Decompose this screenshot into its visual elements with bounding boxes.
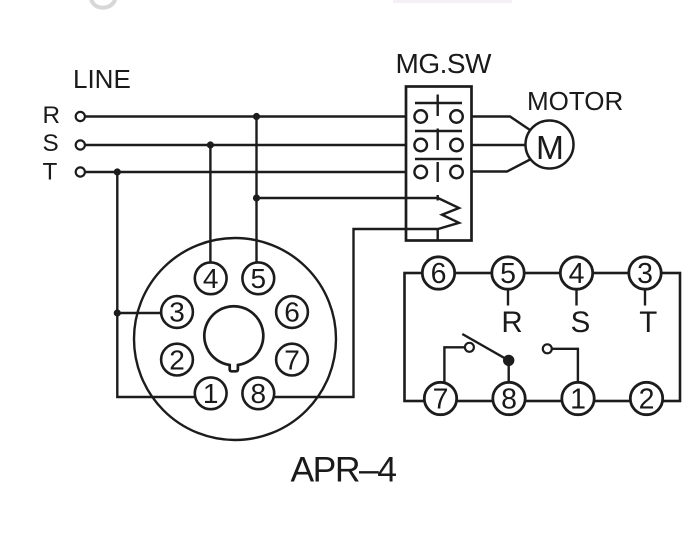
- svg-text:1: 1: [203, 378, 219, 409]
- junction T line: [114, 168, 121, 175]
- junction socket left: [114, 309, 121, 316]
- switch blade: [462, 334, 508, 360]
- contact pole 1 bar: [415, 102, 462, 104]
- svg-text:6: 6: [431, 258, 447, 290]
- pin 8: [242, 377, 274, 409]
- contact pole 2 bar: [415, 130, 462, 132]
- terminal 8: [493, 382, 525, 415]
- wire S vertical to pin 4: [209, 145, 211, 280]
- pin 7: [276, 344, 308, 376]
- linkage dashes: [437, 95, 439, 241]
- svg-text:S: S: [43, 130, 59, 157]
- svg-text:S: S: [571, 306, 591, 339]
- svg-text:T: T: [639, 306, 657, 339]
- contact pole 1 circles: [414, 110, 427, 123]
- svg-text:7: 7: [284, 344, 300, 375]
- terminal 2: [630, 382, 662, 415]
- terminal R: [76, 112, 85, 121]
- terminal 3: [629, 257, 661, 290]
- svg-text:LINE: LINE: [73, 64, 131, 94]
- wire box to motor top: [472, 117, 534, 133]
- terminal 1: [562, 382, 594, 415]
- terminal S: [76, 140, 85, 149]
- junction R line: [253, 113, 260, 120]
- contact pole 3 circles: [414, 166, 427, 179]
- relay base plate: [405, 273, 681, 401]
- terminal 5: [492, 257, 524, 290]
- svg-text:3: 3: [169, 297, 185, 328]
- svg-text:8: 8: [251, 378, 267, 409]
- pin 1: [195, 377, 227, 409]
- wire pivot to terminal 8: [508, 360, 510, 392]
- svg-text:6: 6: [284, 297, 300, 328]
- terminal 7: [424, 382, 456, 415]
- socket center hole with keyway: [204, 306, 263, 371]
- tick under 3: [644, 289, 646, 306]
- tick under 4: [575, 289, 577, 306]
- svg-text:4: 4: [569, 258, 585, 290]
- svg-text:5: 5: [251, 263, 267, 294]
- wire T vertical to socket: [117, 172, 211, 397]
- socket outline circle: [134, 238, 336, 440]
- svg-text:8: 8: [501, 383, 517, 415]
- motor circle M: [526, 121, 574, 169]
- terminal T: [76, 167, 85, 176]
- svg-text:7: 7: [433, 383, 449, 415]
- wire terminal 7 to contact: [444, 347, 466, 392]
- wire box to motor middle: [472, 144, 550, 146]
- wire coil top: [257, 197, 439, 199]
- svg-text:5: 5: [500, 258, 516, 290]
- contact pole 2 circles: [414, 139, 427, 152]
- junction S line: [207, 141, 214, 148]
- svg-text:APR–4: APR–4: [291, 450, 397, 490]
- wire S: [82, 144, 406, 146]
- wire R: [82, 115, 406, 117]
- svg-text:1: 1: [570, 383, 586, 415]
- terminal 6: [422, 257, 454, 290]
- svg-text:MG.SW: MG.SW: [396, 48, 493, 79]
- switch contact (1 side): [543, 344, 552, 353]
- pin 2: [161, 344, 193, 376]
- svg-text:M: M: [536, 130, 564, 167]
- terminal 4: [560, 257, 592, 290]
- wire coil bottom to pin 8: [257, 229, 438, 397]
- wire box to motor bottom: [472, 158, 534, 172]
- svg-text:R: R: [501, 306, 522, 339]
- svg-text:R: R: [43, 102, 61, 129]
- pin 6: [276, 296, 308, 328]
- wire T: [82, 171, 406, 173]
- contact pole 3 bar: [415, 158, 462, 160]
- pin 5: [242, 262, 274, 294]
- svg-text:2: 2: [639, 383, 655, 415]
- wire R vertical to pin 5: [255, 117, 257, 281]
- wire contact to terminal 1: [549, 349, 578, 392]
- contactor box MG.SW: [406, 87, 472, 241]
- svg-text:2: 2: [169, 344, 185, 375]
- wire to pin 3: [117, 312, 179, 314]
- coil MG.SW zigzag: [438, 198, 459, 229]
- tick under 5: [507, 289, 509, 306]
- switch pivot dot: [503, 355, 514, 366]
- svg-text:MOTOR: MOTOR: [527, 86, 623, 116]
- pin 4: [195, 262, 227, 294]
- svg-text:3: 3: [637, 258, 653, 290]
- switch contact (7 side): [465, 343, 474, 352]
- svg-text:T: T: [43, 159, 58, 186]
- pin 3: [161, 296, 193, 328]
- svg-text:4: 4: [203, 263, 219, 294]
- junction coil feed: [253, 194, 260, 201]
